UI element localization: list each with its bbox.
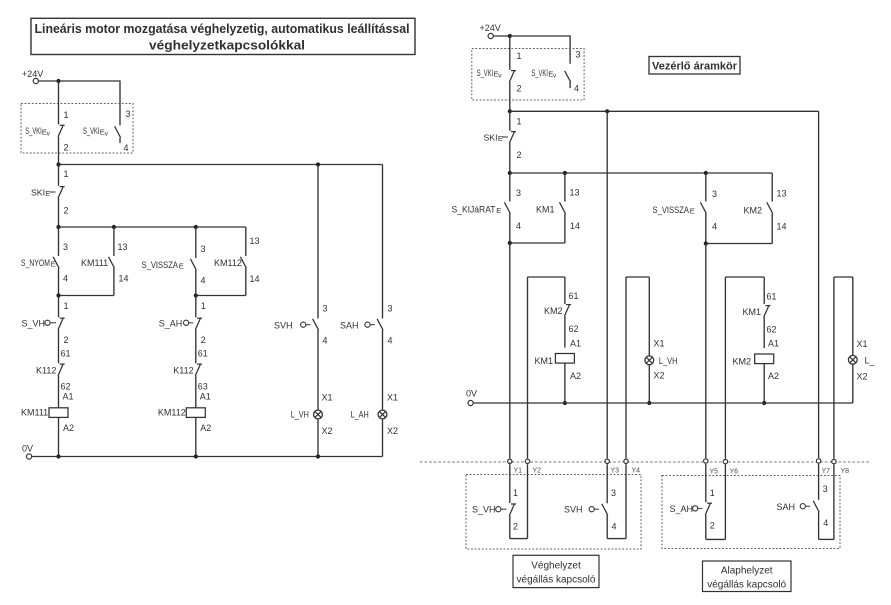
- svg-text:KM1: KM1: [535, 356, 554, 366]
- svg-text:3: 3: [823, 484, 828, 494]
- svg-text:13: 13: [570, 188, 580, 198]
- svg-text:KM2: KM2: [733, 357, 752, 367]
- svg-text:Véghelyzet: Véghelyzet: [531, 561, 581, 572]
- terminal 0V and rail (left): [22, 444, 383, 460]
- svg-text:E: E: [45, 189, 50, 198]
- svg-text:KM1: KM1: [536, 205, 555, 215]
- wire +24V to node (right): [493, 34, 512, 38]
- svg-text:2: 2: [513, 522, 518, 532]
- svg-text:3: 3: [516, 188, 521, 198]
- svg-text:1: 1: [513, 488, 518, 498]
- svg-text:X2: X2: [654, 371, 665, 381]
- svg-text:X1: X1: [654, 339, 665, 349]
- terminal Y3: [605, 459, 619, 474]
- switch S_VKI NO 3-4 (left): [83, 109, 131, 153]
- svg-text:Y6: Y6: [730, 469, 739, 476]
- terminal +24V (right): [480, 23, 501, 39]
- svg-text:SAH: SAH: [777, 502, 796, 512]
- svg-text:3: 3: [201, 244, 206, 254]
- wire branch to S_VKI2 (left): [59, 81, 121, 125]
- node row B (right): [508, 171, 773, 175]
- svg-text:4: 4: [323, 336, 328, 346]
- label box Veghelyzet vegallas kapcsolo: [513, 555, 599, 587]
- svg-text:S_VH: S_VH: [472, 505, 496, 515]
- switch S_VH NC 1-2 with roller (left): [22, 296, 69, 364]
- node row A with wire to lamp columns (left): [56, 162, 382, 166]
- svg-text:3: 3: [63, 242, 68, 252]
- svg-text:Y8: Y8: [841, 468, 850, 475]
- contact KM2 NO 13-14 (right): [744, 173, 787, 244]
- svg-text:2: 2: [201, 335, 206, 345]
- svg-text:2: 2: [517, 84, 522, 94]
- svg-text:13: 13: [250, 236, 260, 246]
- svg-text:14: 14: [119, 274, 129, 284]
- limit-switch enclosure Veghelyzet: [466, 475, 641, 550]
- coil KM1 A1-A2 (right): [535, 339, 582, 406]
- svg-text:+24V: +24V: [480, 23, 501, 33]
- separator dashed line: [420, 461, 871, 463]
- switch S_AH NC 1-2 (box): [670, 464, 715, 540]
- svg-text:61: 61: [198, 349, 208, 359]
- switch S_VKI enclosure (left): [21, 104, 133, 154]
- svg-text:1: 1: [517, 117, 522, 127]
- svg-text:X1: X1: [857, 339, 868, 349]
- terminal Y4: [624, 459, 640, 474]
- coil KM112 A1-A2 (left): [158, 392, 211, 457]
- svg-text:63: 63: [198, 382, 208, 392]
- svg-text:14: 14: [777, 222, 787, 232]
- rail to Y3: [606, 111, 608, 458]
- switch SVH NO 3-4 with roller (left): [274, 165, 328, 411]
- svg-text:2: 2: [64, 143, 69, 153]
- switch S_VISSZA NO 3-4 (left): [142, 227, 206, 296]
- svg-text:62: 62: [767, 325, 777, 335]
- svg-text:3: 3: [611, 488, 616, 498]
- svg-text:2: 2: [517, 150, 522, 160]
- svg-text:62: 62: [569, 324, 579, 334]
- switch S_KIJARAT NO 3-4 (right): [452, 173, 522, 243]
- svg-text:3: 3: [388, 304, 393, 314]
- svg-text:0V: 0V: [466, 389, 477, 399]
- svg-text:1: 1: [710, 488, 715, 498]
- svg-text:SVH: SVH: [564, 505, 583, 515]
- svg-text:A1: A1: [200, 392, 211, 402]
- switch S_AH NC 1-2 with roller (left): [159, 296, 206, 364]
- lamp L_AH X1-X2 (left): [351, 393, 398, 457]
- svg-text:végállás kapcsoló: végállás kapcsoló: [707, 580, 786, 591]
- terminal Y7: [816, 459, 830, 475]
- svg-text:E: E: [690, 207, 695, 216]
- switch S_VKI enclosure (right): [472, 49, 584, 101]
- svg-text:1: 1: [64, 110, 69, 120]
- svg-text:1: 1: [201, 301, 206, 311]
- svg-text:X1: X1: [322, 393, 333, 403]
- svg-text:1: 1: [64, 169, 69, 179]
- wire U bottom SVH: [607, 464, 626, 538]
- svg-text:Y2: Y2: [533, 468, 542, 475]
- wire branch bottom KM2 (right): [704, 241, 773, 245]
- svg-text:L_AH: L_AH: [351, 410, 369, 420]
- svg-text:1: 1: [517, 51, 522, 61]
- svg-text:Y3: Y3: [611, 468, 620, 475]
- svg-text:A2: A2: [200, 423, 211, 433]
- svg-text:S_AH: S_AH: [159, 319, 183, 329]
- svg-text:3: 3: [126, 109, 131, 119]
- svg-text:2: 2: [64, 206, 69, 216]
- node row A wire to lamp rails (right): [508, 109, 819, 113]
- contact KM1 NO 13-14 (right): [536, 173, 580, 243]
- svg-text:Lineáris motor mozgatása véghe: Lineáris motor mozgatása véghelyzetig, a…: [35, 22, 410, 36]
- svg-text:KM111: KM111: [81, 258, 108, 268]
- svg-text:A2: A2: [768, 371, 779, 381]
- lamp L_VH X1-X2 (left): [291, 393, 333, 457]
- svg-text:4: 4: [516, 221, 521, 231]
- switch S_NYOM NO 3-4 (left): [21, 227, 68, 296]
- svg-text:S_VKI: S_VKI: [477, 68, 494, 78]
- wire Y4 riser and loop top L_VH branch: [626, 277, 649, 458]
- svg-text:A2: A2: [570, 371, 581, 381]
- terminal Y1: [508, 459, 523, 474]
- terminal Y6: [723, 459, 738, 475]
- terminal +24V (left): [22, 69, 43, 84]
- lamp L_VH X1-X2 (right): [645, 277, 678, 405]
- svg-text:13: 13: [777, 189, 787, 199]
- coil KM2 A1-A2 (right): [733, 339, 780, 406]
- svg-text:SAH: SAH: [340, 321, 359, 331]
- svg-text:S_NYOM: S_NYOM: [21, 258, 50, 268]
- label box Alaphelyzet vegallas kapcsolo: [703, 561, 792, 592]
- svg-text:4: 4: [823, 518, 828, 528]
- svg-text:A2: A2: [63, 423, 74, 433]
- svg-text:S_VKI: S_VKI: [531, 68, 548, 78]
- terminal Y2: [525, 459, 541, 474]
- svg-text:1: 1: [64, 301, 69, 311]
- contact KM1 NC 61-62 (right): [743, 277, 777, 348]
- switch S_VKI NO 3-4 (right): [531, 50, 580, 94]
- svg-text:Y4: Y4: [632, 468, 641, 475]
- svg-text:E: E: [179, 262, 184, 271]
- switch SAH NO 3-4 with roller (left): [340, 165, 393, 411]
- svg-text:E: E: [496, 206, 501, 215]
- svg-text:KM1: KM1: [743, 307, 762, 317]
- svg-text:X2: X2: [387, 426, 398, 436]
- wire branch bottom KM111 (left): [56, 293, 114, 297]
- svg-text:4: 4: [63, 274, 68, 284]
- svg-text:2: 2: [710, 521, 715, 531]
- svg-text:S_AH: S_AH: [670, 504, 694, 514]
- wire branch to S_VKI2 (right): [510, 36, 570, 64]
- wire Y2 riser and loop top KM1 branch: [528, 277, 565, 458]
- switch S_VISSZA NO 3-4 (right): [653, 173, 718, 244]
- svg-text:KM112: KM112: [158, 408, 186, 418]
- switch S_VKI NC 1-2 (left): [25, 81, 68, 165]
- wire Y6 riser and loop top KM2 branch: [725, 277, 764, 459]
- svg-text:K112: K112: [173, 366, 193, 376]
- rail to Y1: [509, 243, 511, 458]
- wire Y8 riser and loop top L_AH branch: [834, 277, 853, 459]
- svg-text:Y7: Y7: [822, 468, 831, 475]
- svg-text:S_VISSZA: S_VISSZA: [653, 205, 690, 215]
- svg-text:3: 3: [576, 50, 581, 60]
- svg-text:X2: X2: [857, 372, 868, 382]
- svg-text:A1: A1: [63, 392, 74, 402]
- svg-text:13: 13: [118, 242, 128, 252]
- svg-text:2: 2: [64, 335, 69, 345]
- control-circuit title box: [649, 57, 740, 75]
- wire branch bottom KM112 (left): [194, 293, 246, 297]
- svg-text:4: 4: [712, 222, 717, 232]
- svg-text:KM2: KM2: [744, 206, 763, 216]
- svg-text:14: 14: [250, 274, 260, 284]
- svg-text:S_KIJáRAT: S_KIJáRAT: [452, 205, 496, 215]
- switch S_VH NC 1-2 (box): [472, 464, 518, 538]
- contact KM111 NO 13-14 (left): [81, 227, 129, 296]
- svg-text:véghelyzetkapcsolókkal: véghelyzetkapcsolókkal: [149, 39, 305, 53]
- title box: [31, 18, 415, 54]
- svg-text:14: 14: [570, 221, 580, 231]
- wire U bottom S_VH: [510, 464, 528, 538]
- svg-text:4: 4: [612, 522, 617, 532]
- svg-text:Alaphelyzet: Alaphelyzet: [721, 566, 773, 577]
- contact K112 NC 61-62 (left col1): [36, 349, 71, 408]
- svg-text:SKI: SKI: [31, 188, 45, 198]
- svg-text:L_: L_: [865, 356, 876, 366]
- svg-text:A1: A1: [768, 339, 779, 349]
- coil KM111 A1-A2 (left): [21, 392, 74, 457]
- switch S_VKI NC 1-2 (right): [477, 36, 522, 111]
- svg-text:K112: K112: [36, 366, 56, 376]
- terminal Y8: [832, 459, 849, 475]
- svg-text:Vezérlő áramkör: Vezérlő áramkör: [652, 61, 738, 73]
- terminal Y5: [704, 459, 719, 476]
- rail to Y5: [705, 244, 707, 459]
- terminal 0V and rail (right): [466, 389, 853, 406]
- svg-text:L_VH: L_VH: [291, 410, 309, 420]
- wire branch bottom KM1 (right): [508, 241, 565, 245]
- switch SVH NO 3-4 (box): [564, 464, 617, 538]
- lamp L_AH X1-X2 (right): [848, 277, 875, 403]
- svg-text:61: 61: [61, 349, 71, 359]
- svg-text:4: 4: [574, 84, 579, 94]
- wire U bottom S_AH: [706, 465, 726, 540]
- svg-text:S_VISSZA: S_VISSZA: [142, 260, 179, 270]
- svg-text:S_VKI: S_VKI: [83, 126, 100, 136]
- svg-text:KM111: KM111: [21, 408, 48, 418]
- svg-text:L_VH: L_VH: [659, 356, 678, 366]
- svg-text:4: 4: [201, 276, 206, 286]
- svg-text:S_VKI: S_VKI: [25, 126, 42, 136]
- svg-text:X2: X2: [322, 426, 333, 436]
- svg-text:62: 62: [61, 382, 71, 392]
- limit-switch enclosure Alaphelyzet: [662, 476, 840, 549]
- svg-text:4: 4: [124, 143, 129, 153]
- svg-text:A1: A1: [570, 339, 581, 349]
- svg-text:Y5: Y5: [710, 469, 719, 476]
- svg-text:+24V: +24V: [22, 69, 43, 79]
- svg-text:SKI: SKI: [484, 133, 498, 143]
- svg-text:4: 4: [388, 336, 393, 346]
- svg-text:3: 3: [323, 304, 328, 314]
- svg-text:S_VH: S_VH: [22, 319, 46, 329]
- svg-text:végállás kapcsoló: végállás kapcsoló: [517, 575, 596, 586]
- switch SKI NC 1-2 (right): [484, 111, 522, 173]
- svg-text:61: 61: [767, 292, 777, 302]
- switch SKI NC 1-2 (left): [31, 165, 69, 228]
- contact KM112 NO 13-14 (left): [214, 227, 260, 296]
- svg-text:E: E: [498, 134, 503, 143]
- svg-text:0V: 0V: [22, 444, 33, 454]
- svg-text:SVH: SVH: [274, 321, 293, 331]
- svg-text:Y1: Y1: [514, 468, 523, 475]
- wire U bottom SAH: [819, 465, 834, 540]
- rail to Y7: [818, 111, 820, 458]
- switch SAH NO 3-4 (box): [777, 464, 829, 540]
- svg-text:KM2: KM2: [544, 306, 563, 316]
- svg-text:61: 61: [569, 291, 579, 301]
- node row B (left): [56, 225, 245, 229]
- svg-text:KM112: KM112: [214, 258, 242, 268]
- contact K112 NC 61-63 (left col2): [173, 349, 208, 408]
- svg-text:X1: X1: [387, 393, 398, 403]
- wire +24V to node (left): [38, 79, 60, 83]
- contact KM2 NC 61-62 (right): [544, 277, 579, 348]
- svg-text:3: 3: [712, 189, 717, 199]
